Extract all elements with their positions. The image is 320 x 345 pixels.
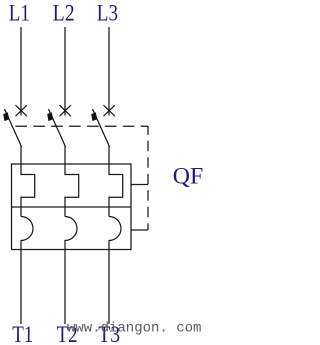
wire T1 lead — [20, 250, 22, 325]
magnetic release pole 2 — [65, 217, 77, 250]
blade end square pole 2 — [47, 112, 53, 121]
thermal release pole 2 — [65, 164, 79, 217]
svg-text:www.diangon. com: www.diangon. com — [67, 321, 201, 337]
breaker QF fixed contact X pole 2 — [60, 105, 71, 116]
thermal release pole 3 — [109, 164, 123, 217]
linkage stub to thermal row — [131, 184, 148, 186]
wire L2 lead — [64, 27, 66, 116]
blade end square pole 3 — [91, 112, 97, 121]
blade end square pole 1 — [3, 112, 9, 121]
magnetic release pole 1 — [21, 217, 33, 250]
svg-text:L1: L1 — [9, 1, 30, 27]
wire L3 lead — [108, 27, 110, 116]
wire L1 lead — [20, 27, 22, 116]
trip unit box — [12, 164, 132, 250]
svg-text:L3: L3 — [97, 1, 118, 27]
breaker QF fixed contact X pole 1 — [16, 105, 27, 116]
wire T3 lead — [108, 250, 110, 325]
trip unit box divider — [12, 206, 132, 208]
wire T2 lead — [64, 250, 66, 325]
mechanical linkage dashed line vertical — [147, 126, 149, 230]
svg-text:T1: T1 — [12, 322, 33, 345]
mechanical linkage dashed line horizontal — [13, 125, 149, 127]
breaker QF fixed contact X pole 3 — [104, 105, 115, 116]
linkage stub to magnetic row — [131, 229, 148, 231]
svg-text:QF: QF — [173, 163, 204, 188]
thermal release pole 1 — [21, 164, 35, 217]
magnetic release pole 3 — [109, 217, 121, 250]
breaker QF blade pole 3 — [93, 109, 110, 164]
breaker QF blade pole 2 — [49, 109, 66, 164]
svg-text:L2: L2 — [53, 1, 75, 27]
breaker QF blade pole 1 — [5, 109, 22, 164]
